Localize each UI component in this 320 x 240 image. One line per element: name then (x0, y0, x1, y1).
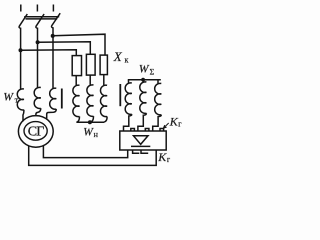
winding Ws column 1 (125, 83, 132, 115)
wire phase B vertical (37, 28, 39, 88)
switch linkage rail upper (24, 16, 59, 18)
node junction phase C (51, 34, 55, 38)
wire R3 bottom to Wn3 (103, 75, 105, 86)
svg-text:W: W (3, 91, 14, 103)
switch S1 top dash (20, 5, 22, 12)
wire generator lead right (43, 146, 127, 158)
svg-text:н: н (94, 130, 99, 139)
winding Wt column 1 (17, 89, 24, 110)
terminal tooth top 1 (131, 129, 135, 132)
wire Ws bus to column2 (142, 80, 144, 82)
wire Wt1 to generator (22, 110, 25, 122)
wire phase C vertical (52, 27, 54, 88)
leader arrow Kg (163, 123, 168, 128)
wire generator lead left (29, 146, 157, 166)
svg-text:К: К (157, 150, 167, 164)
resistor R3 (100, 55, 107, 75)
terminal tooth top 3 (160, 129, 164, 132)
wire Ws bus to column3 (157, 80, 159, 84)
wire Ws3 to rectifier (153, 115, 162, 131)
terminal tooth top 2 (145, 129, 149, 132)
svg-text:г: г (167, 155, 171, 164)
switch S2 top dash (36, 5, 38, 12)
wire phase A vertical (20, 28, 22, 90)
node Wn star point (88, 120, 92, 124)
svg-text:к: к (125, 56, 129, 65)
wire Ws2 to rectifier (138, 113, 147, 131)
winding Wn column 1 (73, 85, 80, 117)
wire bus phase B to R2 (38, 42, 91, 55)
switch S3 blade (52, 13, 61, 28)
winding Wn column 2 (87, 85, 94, 117)
core bar 1 (61, 89, 63, 109)
wire Wt2 to generator (36, 108, 41, 116)
winding Ws column 2 (140, 82, 147, 114)
svg-text:т: т (15, 96, 19, 105)
switch S2 blade (36, 14, 44, 28)
terminal tooth bottom 1 (133, 150, 140, 153)
winding Wn column 3 (100, 85, 107, 117)
wire Wn star connector (76, 116, 107, 122)
svg-text:К: К (169, 114, 179, 128)
node junction phase A (19, 48, 23, 52)
switch S3 top dash (52, 5, 54, 12)
rectifier box U1 (120, 131, 166, 150)
wire bus phase C to R3 (53, 34, 105, 55)
svg-text:W: W (139, 63, 150, 75)
svg-text:W: W (83, 127, 94, 139)
svg-text:СГ: СГ (28, 124, 45, 139)
resistor R1 (72, 56, 81, 76)
terminal tooth bottom 2 (141, 150, 148, 153)
generator SG inner circle (24, 122, 47, 141)
switch S1 blade (19, 14, 27, 28)
diode V1 triangle (134, 136, 149, 145)
wire bus phase A to R1 (21, 50, 77, 56)
wire R1 bottom to Wn1 (75, 76, 77, 86)
node Ws bus junction (141, 78, 145, 82)
svg-text:г: г (178, 120, 182, 129)
core bar 2 (119, 84, 121, 106)
node junction phase B (36, 40, 40, 44)
diode V1 bar (131, 145, 150, 147)
generator SG outer circle (18, 116, 53, 148)
winding Ws column 3 (155, 83, 162, 114)
wire Ws bus to column1 (128, 80, 130, 83)
wire R2 bottom to Wn2 (89, 75, 91, 85)
wire Wt3 to generator (47, 109, 57, 119)
switch linkage rail lower (26, 18, 58, 20)
winding Ws top bus (128, 79, 161, 81)
svg-text:X: X (113, 49, 123, 64)
svg-text:Σ: Σ (150, 68, 155, 77)
winding Wt column 2 (34, 87, 41, 108)
resistor R2 (86, 54, 95, 75)
winding Wt column 3 (50, 88, 57, 109)
wire Ws1 to rectifier (124, 114, 132, 131)
